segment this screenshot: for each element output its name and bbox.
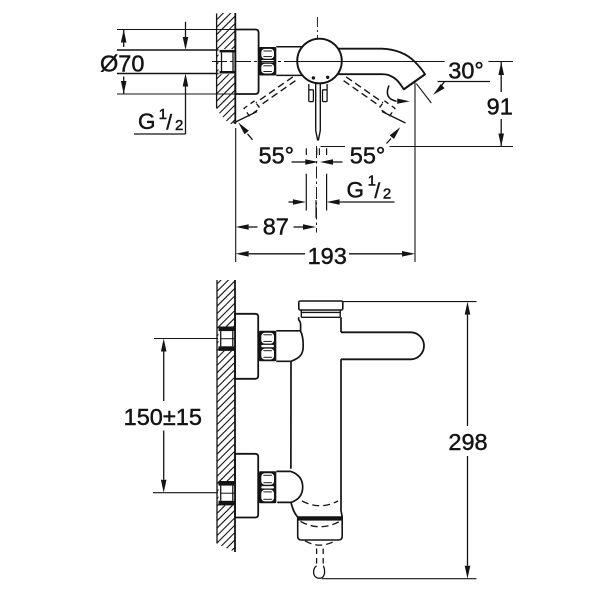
dashed arc below outlet nut: [305, 541, 335, 545]
lower hex union nut (side view): [259, 471, 276, 503]
spout swing arc arrow: [387, 86, 396, 102]
outlet nut: [298, 517, 343, 540]
svg-text:/: /: [166, 111, 172, 134]
150 dimension line: [161, 339, 167, 352]
spout (top view): [337, 49, 425, 90]
G1/2 right extension lines: [305, 148, 307, 155]
spout outlet axis line: [416, 84, 431, 103]
91 dim bottom reference line: [321, 146, 346, 148]
wall back edge line (top view): [216, 14, 218, 109]
supply pipe nipple: [117, 49, 220, 51]
G1/2 left underline: [134, 133, 186, 135]
rod extension stubs: [316, 148, 318, 155]
svg-text:150±15: 150±15: [124, 404, 202, 430]
svg-text:30°: 30°: [448, 58, 484, 84]
dia70 extension lines: [117, 29, 235, 31]
298 dimension line: [465, 302, 471, 315]
wall flange escutcheon (top view): [235, 30, 258, 95]
handle swung left (dashed): [256, 77, 293, 103]
dashed shower hose stub: [316, 549, 318, 567]
wall back edge line (side view): [216, 280, 218, 544]
vertical centerline below lever: [316, 146, 318, 233]
dashed arc above outlet: [302, 501, 338, 506]
vertical centerline above body: [316, 17, 318, 44]
svg-text:2: 2: [175, 117, 183, 134]
left 55-deg leader arrow: [238, 123, 249, 135]
svg-text:G: G: [138, 109, 156, 134]
body collar rings: [300, 310, 302, 317]
in-wall fitting lower (side view): [219, 481, 236, 505]
handle end line right: [382, 112, 406, 124]
svg-text:87: 87: [263, 214, 289, 240]
label 30 deg underline: [438, 81, 491, 83]
upper flange escutcheon (side view): [235, 314, 258, 379]
lever collar (plan): [308, 84, 310, 90]
handle swung right (dashed): [346, 77, 383, 103]
dashed arc inside outlet nut: [301, 522, 340, 527]
center extension line 87: [315, 200, 317, 218]
298 extension line bottom: [322, 578, 477, 580]
dia70 dimension line: [123, 30, 125, 48]
wall face line (side view): [234, 280, 236, 552]
wall section (side view): [211, 239, 247, 600]
union connector piece: [276, 46, 303, 48]
hex union nut (top view): [259, 47, 276, 76]
wall section (top view): [105, 9, 353, 124]
body top cap: [299, 301, 343, 310]
handle end line left: [234, 112, 258, 124]
svg-text:55°: 55°: [259, 142, 295, 168]
right 55-deg leader arrow: [390, 127, 401, 139]
screw dot left: [312, 76, 315, 79]
91 dimension line: [500, 62, 502, 92]
150 extension line lower: [153, 492, 218, 494]
lever shaft (plan, mid position): [315, 84, 317, 131]
small width arrows: [292, 161, 306, 163]
centerline through circle: [297, 61, 342, 63]
lever handle (side view): [341, 332, 424, 359]
screw dot right: [326, 76, 329, 79]
in-wall fitting (top view): [219, 49, 236, 74]
spout outlet face: [404, 74, 425, 89]
wall face line (top view): [234, 13, 236, 124]
horizontal centerline right segment: [488, 61, 513, 63]
G1/2 right arrows: [289, 201, 294, 203]
left extension line (wall face): [235, 128, 237, 262]
svg-text:2: 2: [383, 185, 391, 202]
30-deg leader: [441, 82, 444, 87]
svg-text:91: 91: [487, 94, 513, 120]
svg-text:G: G: [347, 177, 365, 202]
lower flange escutcheon (side view): [235, 454, 258, 518]
horizontal centerline: [212, 61, 299, 63]
150 extension line upper: [154, 338, 218, 340]
upper hex union nut (side view): [259, 331, 276, 362]
G1/2 left leader: [185, 22, 187, 38]
G1/2 right underline: [340, 201, 395, 203]
svg-text:55°: 55°: [350, 142, 386, 168]
298 extension line top: [343, 301, 477, 303]
svg-text:Ø70: Ø70: [100, 50, 144, 76]
svg-text:193: 193: [308, 243, 347, 269]
right extension line (spout tip): [414, 82, 416, 262]
svg-text:298: 298: [448, 429, 487, 455]
cartridge housing circle (top view): [297, 39, 342, 84]
193 dimension line: [236, 251, 249, 257]
hose end tip: [314, 566, 325, 578]
body outline (side view): [276, 317, 342, 517]
87 dimension line: [236, 224, 249, 230]
in-wall fitting upper (side view): [219, 327, 236, 351]
svg-text:/: /: [374, 180, 380, 203]
